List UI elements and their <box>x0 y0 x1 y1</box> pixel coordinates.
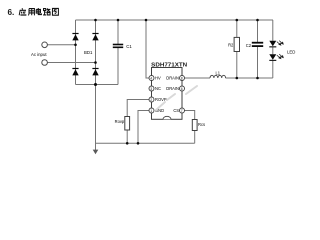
图 <box>52 8 58 15</box>
svg-text:L1: L1 <box>216 71 221 76</box>
svg-text:DRAIN: DRAIN <box>166 76 179 81</box>
路 <box>43 8 50 15</box>
用 <box>28 9 34 16</box>
wire ground drop <box>95 85 97 151</box>
resistor Rovp <box>125 117 130 131</box>
LED D5 emission arrows <box>277 41 284 46</box>
pin 6 DRAIN <box>180 86 185 91</box>
pin 1 GND <box>149 108 154 113</box>
wire top rail <box>76 19 274 21</box>
node top rail / C1 <box>117 19 120 22</box>
svg-text:7: 7 <box>181 109 183 113</box>
wire L1 to bottom-right rail <box>226 77 273 79</box>
notch <box>163 116 171 119</box>
wire AC input 2 <box>48 62 96 64</box>
svg-text:C1: C1 <box>126 44 132 49</box>
AC input terminal 1 <box>42 42 48 48</box>
svg-text:HV: HV <box>155 76 161 81</box>
wire AC input 1 <box>48 44 76 46</box>
title: 6. 应用电路图 <box>8 8 59 17</box>
应 <box>19 8 26 15</box>
LED D5 <box>269 41 276 48</box>
wire bridge left column <box>75 20 77 85</box>
wire DRAIN to L1 <box>185 77 211 79</box>
ground <box>93 150 99 155</box>
svg-text:Ac input: Ac input <box>31 52 47 57</box>
pin 7 CS <box>180 108 185 113</box>
wire R2 column <box>236 20 238 37</box>
bridge BD1 diode D2 (top-right) <box>92 34 98 40</box>
svg-text:3: 3 <box>150 87 152 91</box>
wire C2 column <box>257 20 259 42</box>
node ground rail / GND pin <box>137 142 140 145</box>
inductor L1 <box>210 75 226 78</box>
svg-text:R2: R2 <box>228 42 234 47</box>
pin 4 HV <box>149 76 154 81</box>
svg-text:Rcs: Rcs <box>198 122 205 127</box>
svg-text:8: 8 <box>181 76 183 80</box>
wire ROVP to Rovp <box>127 100 149 117</box>
bridge BD1 diode D4 (bottom-right) <box>92 69 98 75</box>
wire bottom-left rail <box>76 84 119 86</box>
capacitor C1 <box>113 44 123 48</box>
LED D6 emission arrows <box>277 54 284 59</box>
pin 2 ROVP <box>149 97 154 102</box>
node top rail / R2 <box>236 19 239 22</box>
node bottom rail / R2 <box>236 77 239 80</box>
svg-text:BD1: BD1 <box>84 50 93 55</box>
wire HV feed <box>146 20 149 78</box>
pin 8 DRAIN <box>180 76 185 81</box>
svg-text:2: 2 <box>150 98 152 102</box>
电 <box>36 8 41 15</box>
pin 3 NC <box>149 86 154 91</box>
node bottom rail / C2 <box>256 77 259 80</box>
wire ground rail <box>96 142 195 144</box>
wire LED column <box>272 20 274 41</box>
svg-text:LED: LED <box>287 50 295 55</box>
wire C1 branch <box>117 20 119 44</box>
bridge BD1 diode D3 (bottom-left) <box>72 69 78 75</box>
node top rail / bridge right <box>94 19 97 22</box>
svg-text:6: 6 <box>181 87 183 91</box>
wire GND pin to ground <box>138 111 149 144</box>
svg-text:C2: C2 <box>246 43 252 48</box>
node AC2 / bridge right <box>94 61 97 64</box>
node top rail / C2 <box>256 19 259 22</box>
LED D6 <box>269 54 276 61</box>
resistor R2 <box>234 37 239 51</box>
svg-text:CS: CS <box>173 108 179 113</box>
node AC1 / bridge left <box>74 44 77 47</box>
wire Rcs to ground <box>194 131 196 144</box>
bridge BD1 diode D1 (top-left) <box>72 33 98 76</box>
svg-text:NC: NC <box>155 86 161 91</box>
svg-text:DRAIN: DRAIN <box>166 86 179 91</box>
resistor Rcs <box>192 120 197 131</box>
svg-text:1: 1 <box>150 109 152 113</box>
node bridge bottom <box>94 83 97 86</box>
svg-text:4: 4 <box>150 76 152 80</box>
watermark traces <box>156 86 197 110</box>
svg-text:Rovp: Rovp <box>115 119 125 124</box>
node ground rail / Rovp <box>126 142 129 145</box>
wire Rovp to ground <box>126 130 128 143</box>
wire CS pin to Rcs <box>185 111 195 120</box>
AC input terminal 2 <box>42 60 48 66</box>
wire bridge right column <box>95 20 97 85</box>
pin labels <box>155 76 179 114</box>
capacitor C2 <box>252 42 263 47</box>
node top rail / HV <box>145 19 148 22</box>
svg-text:6.: 6. <box>8 8 15 17</box>
op-amp U1 : SDH771XTN controller <box>149 63 188 120</box>
